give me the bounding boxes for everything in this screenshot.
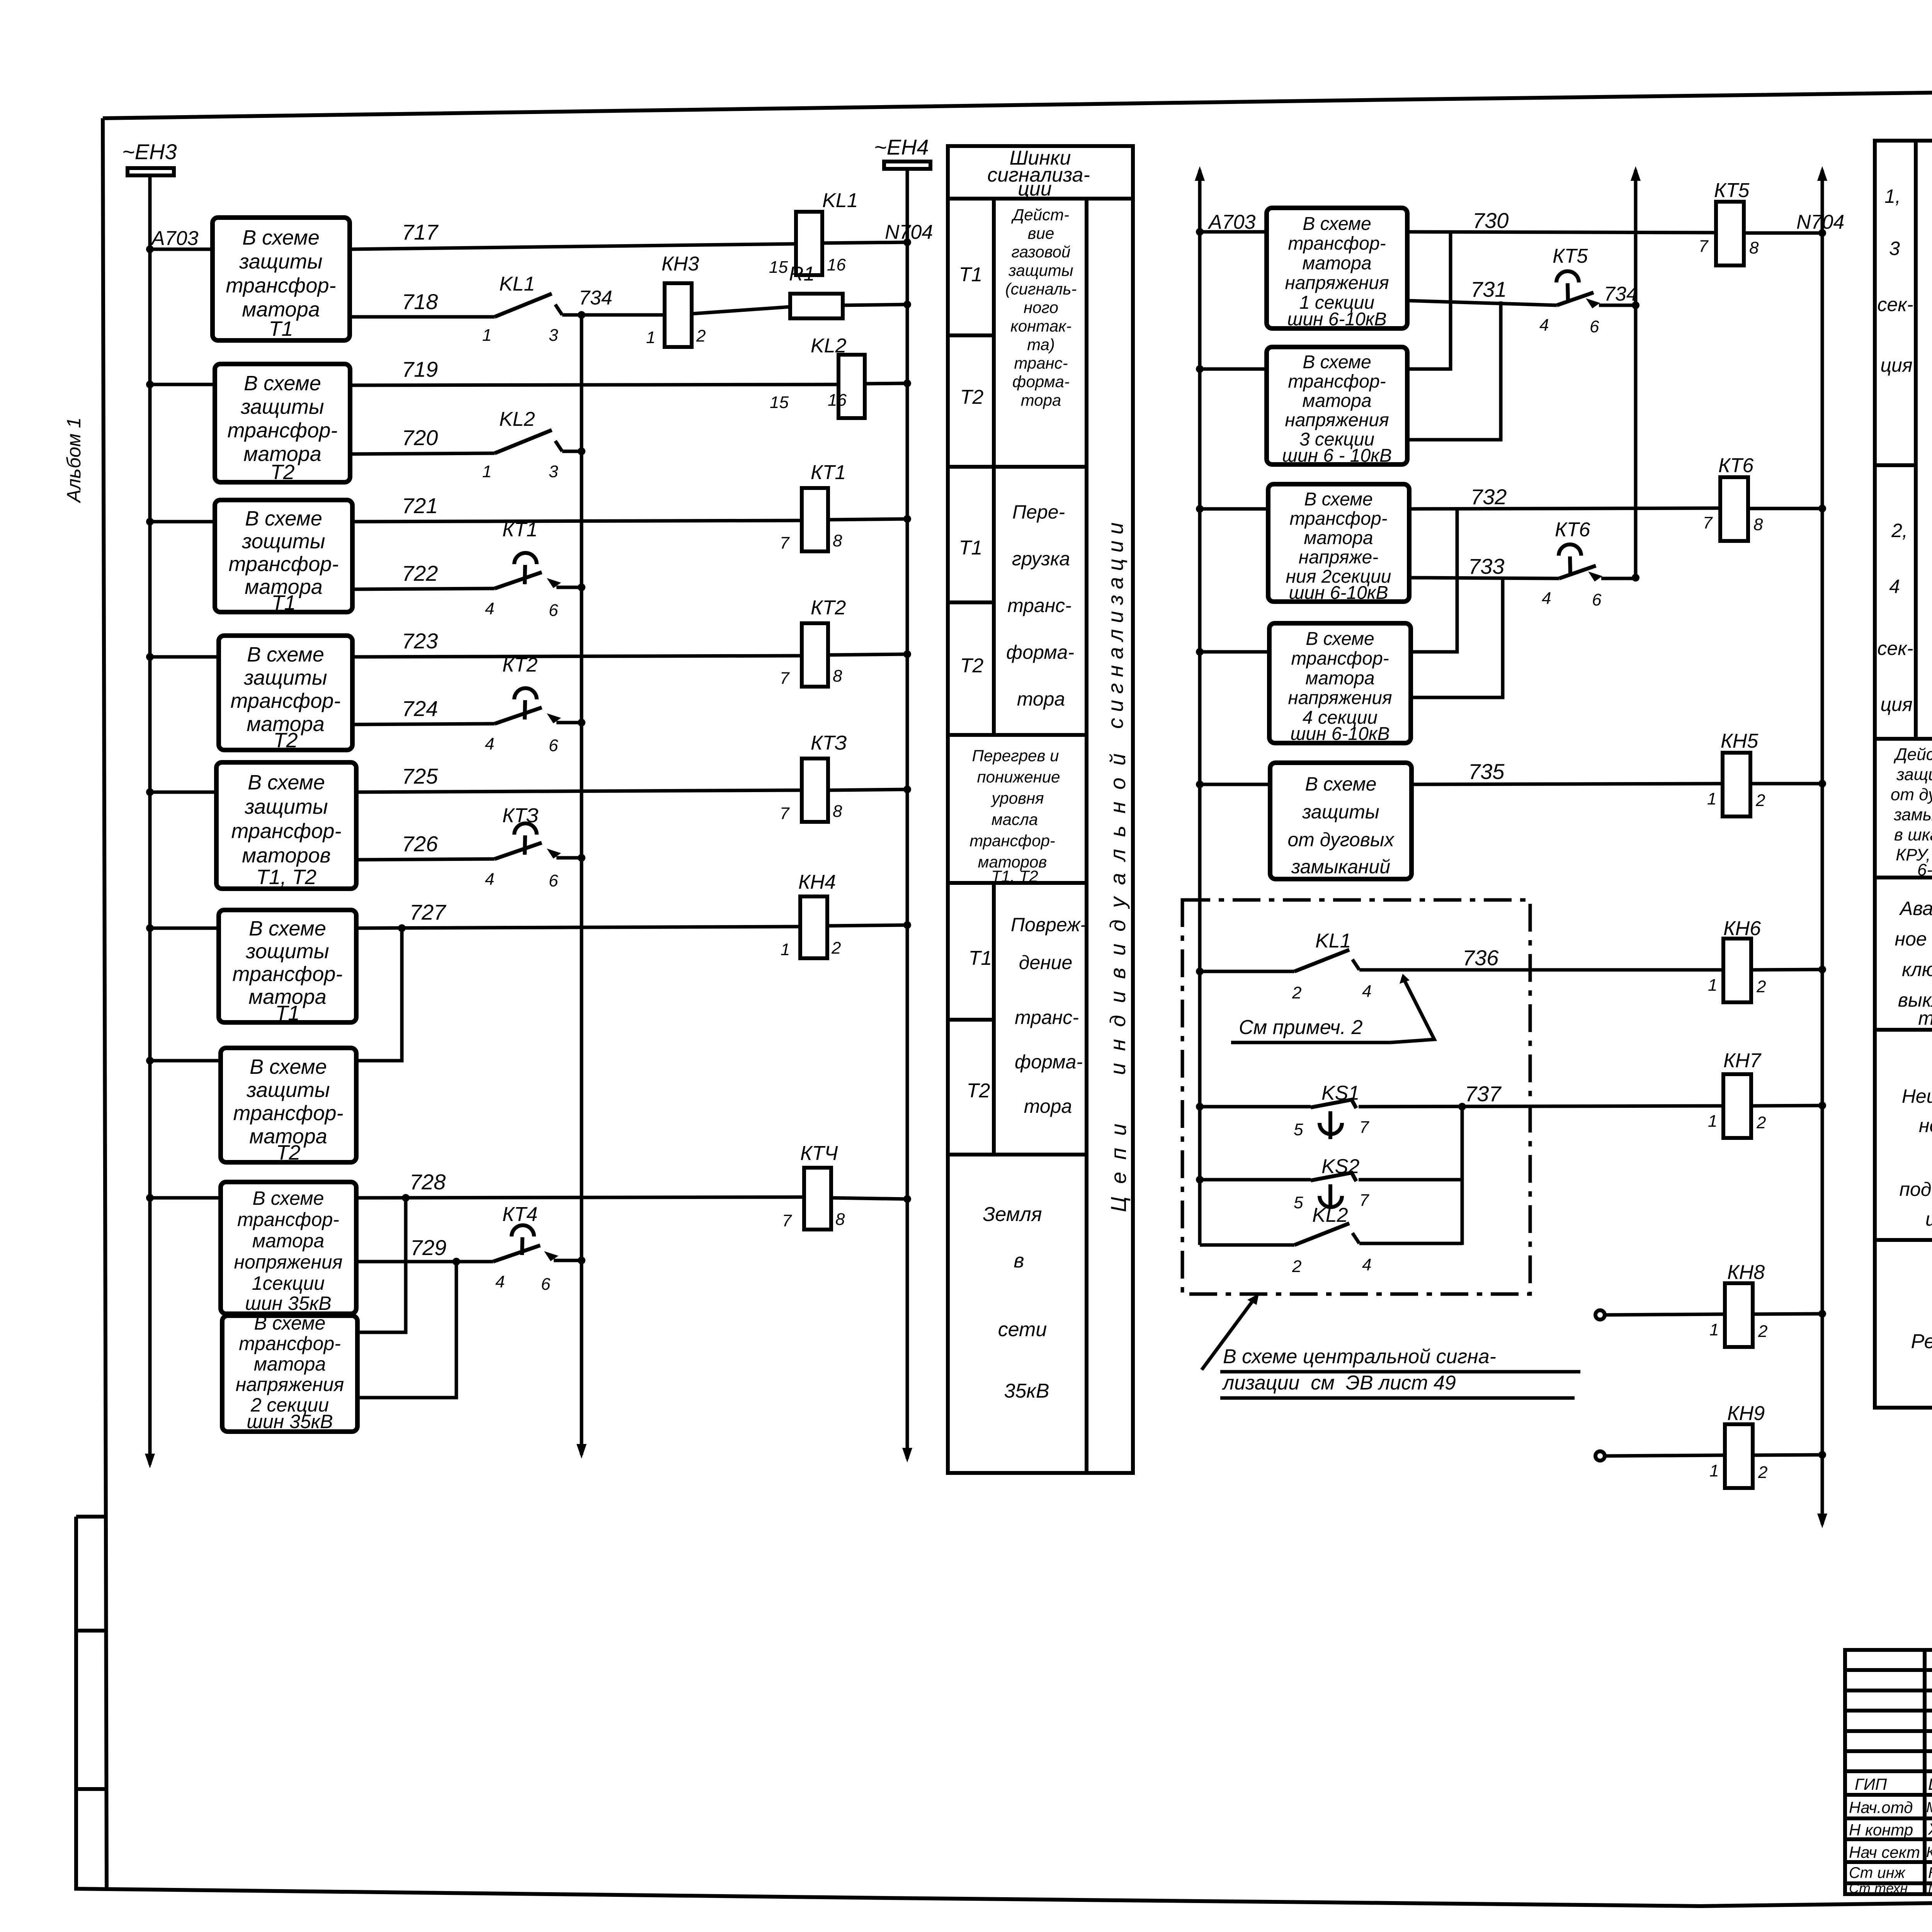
svg-text:шин 35кВ: шин 35кВ [247, 1411, 333, 1432]
svg-text:722: 722 [402, 561, 438, 585]
box m1 В схеме трансформатора напряжения 1 секции шин 6-10кВ [1267, 208, 1407, 328]
svg-text:В схеме: В схеме [1306, 629, 1374, 649]
wire KT5 contact to mid node 734 [1599, 304, 1636, 307]
svg-text:2: 2 [696, 327, 706, 345]
svg-text:понижение: понижение [977, 768, 1060, 786]
junction A703-box8 [146, 1194, 154, 1202]
svg-text:R1: R1 [789, 263, 815, 285]
shinki table row line T1/T2 sec4 [948, 1018, 994, 1022]
left margin stamp boxes [76, 1517, 107, 1889]
svg-text:трансфор-: трансфор- [237, 1209, 339, 1230]
wire 736 left [1200, 970, 1294, 973]
wire KT4 coil to N704 [831, 1198, 907, 1199]
wire A703 to box1 [150, 248, 213, 251]
terminal circle KH8 row [1595, 1310, 1605, 1320]
note leader arrowhead [1400, 974, 1410, 984]
svg-text:1,: 1, [1884, 185, 1901, 207]
contact KT6 blade [1559, 566, 1596, 578]
wire KH7 coil to N704 [1751, 1105, 1822, 1106]
junction midN704-KH8 [1818, 1310, 1826, 1318]
svg-text:Т2: Т2 [967, 1080, 990, 1102]
cell arc protection text [1891, 745, 1932, 879]
junction 729-box9 jog [452, 1258, 460, 1265]
svg-text:KL2: KL2 [1312, 1204, 1348, 1226]
svg-text:Нач сект: Нач сект [1849, 1843, 1920, 1861]
relay coil KH7 [1723, 1074, 1751, 1138]
svg-text:трансфор-: трансфор- [1289, 509, 1387, 529]
svg-text:723: 723 [402, 629, 438, 653]
contact KT3 blade [495, 843, 542, 859]
svg-text:защиты: защиты [1302, 801, 1379, 823]
junction midN704-736 [1818, 966, 1826, 973]
svg-text:1: 1 [1709, 1320, 1719, 1339]
junction mid A703-m2 [1196, 365, 1204, 373]
contact KT3 time-delay symbol [514, 823, 537, 835]
svg-text:уровня: уровня [990, 789, 1044, 807]
svg-text:ция: ция [1880, 694, 1912, 715]
wire 727 [356, 927, 800, 928]
bus ~EH3 bar [128, 168, 174, 175]
contact KS2 cup symbol [1328, 1184, 1332, 1209]
svg-text:сети: сети [998, 1318, 1047, 1341]
svg-text:в: в [1014, 1250, 1024, 1272]
svg-text:трансфор-: трансфор- [228, 419, 338, 442]
svg-text:Действие: Действие [1893, 745, 1932, 764]
svg-text:нопряжения: нопряжения [234, 1251, 342, 1273]
junction 734-720 [578, 447, 585, 455]
wire KH4 coil to N704 [827, 925, 907, 926]
svg-text:КН9: КН9 [1727, 1402, 1765, 1425]
junction mid A703-m1 [1196, 228, 1204, 236]
bus ~EH4 / net N704 vertical wire [906, 167, 909, 1459]
wire A703 to box8 [150, 1196, 221, 1200]
wire KL2 contact to node734 [562, 450, 582, 453]
contact KT4 blade [493, 1245, 540, 1262]
svg-text:КН6: КН6 [1723, 917, 1761, 940]
svg-text:зощиты: зощиты [241, 530, 325, 553]
junction midN704-737 [1818, 1102, 1826, 1109]
svg-text:КТ2: КТ2 [502, 654, 537, 676]
svg-text:маторов: маторов [242, 844, 331, 867]
svg-text:Хмелев: Хмелев [1928, 1820, 1932, 1838]
wire 737 to KH7 [1359, 1106, 1723, 1107]
svg-text:А703: А703 [1207, 211, 1256, 233]
junction A703-box3 [146, 518, 154, 526]
svg-text:транс-: транс- [1015, 1007, 1079, 1028]
middle table row line avar cell bottom [1875, 1028, 1932, 1032]
wire KL1 coil to N704 [822, 242, 907, 243]
box2 В схеме защиты трансформатора Т2 [215, 364, 350, 482]
junction midN704-735 [1818, 780, 1826, 787]
svg-text:35кВ: 35кВ [1004, 1380, 1049, 1402]
svg-text:напряжения: напряжения [1285, 410, 1389, 430]
svg-text:тора: тора [1021, 391, 1061, 409]
wire 724 [352, 724, 495, 724]
box7 В схеме защиты трансформатора Т2 [221, 1048, 356, 1162]
svg-text:7: 7 [780, 534, 790, 553]
svg-text:2: 2 [1756, 1113, 1766, 1132]
svg-text:1: 1 [1707, 789, 1716, 808]
contact KT1 blade [495, 572, 542, 588]
contact KT5 fixed arrow [1586, 298, 1600, 308]
shinki table outer border [948, 146, 1133, 1473]
svg-text:В схеме: В схеме [1305, 773, 1377, 795]
svg-text:В схеме: В схеме [247, 643, 324, 666]
svg-text:шин 6-10кВ: шин 6-10кВ [1290, 724, 1389, 744]
junction A703-box2 [146, 381, 154, 388]
svg-text:732: 732 [1471, 485, 1507, 509]
svg-text:736: 736 [1463, 946, 1499, 970]
svg-text:ГИП: ГИП [1855, 1775, 1887, 1793]
junction N704-723 [903, 650, 911, 658]
svg-text:719: 719 [402, 357, 438, 381]
svg-text:Колесникова: Колесникова [1926, 1844, 1932, 1861]
box6 В схеме зощиты трансформатора Т1 [219, 910, 356, 1022]
svg-text:ции: ции [1925, 1208, 1932, 1230]
junction N704-728 [903, 1195, 911, 1203]
wire box7 jog to 727 [356, 928, 402, 1061]
svg-text:матора: матора [1305, 668, 1374, 689]
contact KT6 fixed arrow [1588, 571, 1602, 582]
title block outer border [1845, 1650, 1932, 1894]
svg-text:6: 6 [549, 736, 558, 755]
relay coil KT2 [802, 623, 828, 687]
junction midA703-737 [1196, 1103, 1204, 1111]
svg-text:В схеме центральной сигна-: В схеме центральной сигна- [1223, 1345, 1496, 1368]
svg-text:Перегрев и: Перегрев и [972, 747, 1059, 765]
wire KS2 row left [1200, 1178, 1311, 1182]
svg-text:4: 4 [1362, 982, 1371, 1001]
svg-text:от дуговых: от дуговых [1891, 785, 1932, 804]
svg-text:15: 15 [770, 393, 789, 412]
bus A703 bottom arrow [145, 1454, 155, 1468]
svg-text:форма-: форма- [1012, 372, 1070, 391]
contact KT5 time-delay symbol [1556, 271, 1579, 282]
contact KL1 (dashed box) fixed tick [1352, 959, 1359, 970]
junction mid A703-m4 [1196, 648, 1204, 656]
wire KH9 coil to N704 [1753, 1455, 1822, 1455]
svg-text:КН3: КН3 [662, 253, 699, 275]
svg-text:тора: тора [1017, 688, 1065, 710]
svg-text:телей: телей [1918, 1007, 1932, 1029]
svg-text:КТ6: КТ6 [1555, 519, 1590, 541]
wire KT5 coil to N704 [1744, 231, 1822, 235]
svg-text:вие: вие [1028, 224, 1054, 242]
contact KS1 blade [1311, 1100, 1356, 1108]
wire KH3 coil to R1 [692, 307, 790, 314]
wire KL2 row left [1200, 1243, 1294, 1247]
svg-text:В схеме: В схеме [250, 1055, 327, 1078]
svg-text:Альбом 1: Альбом 1 [63, 417, 85, 503]
svg-text:734: 734 [579, 287, 612, 309]
relay coil KT1 [802, 488, 828, 551]
svg-text:В схеме: В схеме [1303, 352, 1371, 372]
wire m2 jog to 730 [1407, 232, 1451, 369]
note line2 underline [1220, 1396, 1575, 1400]
svg-text:7: 7 [780, 669, 790, 688]
relay coil KH3 [665, 283, 692, 347]
frame top border [103, 83, 1932, 118]
contact KL2 fixed tick [555, 441, 562, 451]
relay coil KH6 [1723, 939, 1751, 1002]
svg-text:защиты: защиты [1896, 765, 1932, 784]
wire mid A703 to m5 [1200, 783, 1270, 786]
wire 729 [356, 1260, 493, 1264]
wire 725 [356, 790, 802, 792]
svg-text:4: 4 [495, 1272, 505, 1291]
contact KT2 fixed arrow [547, 713, 561, 723]
wire KL2 coil to N704 [865, 383, 907, 384]
svg-text:матора: матора [1302, 253, 1371, 274]
svg-text:2: 2 [1758, 1322, 1767, 1341]
svg-text:масла: масла [992, 810, 1038, 828]
svg-text:В схеме: В схеме [244, 372, 321, 395]
svg-text:16: 16 [828, 391, 847, 410]
svg-text:тора: тора [1024, 1095, 1072, 1117]
svg-text:шин 35кВ: шин 35кВ [245, 1293, 331, 1314]
svg-text:В схеме: В схеме [248, 771, 325, 794]
mid N704 right vertical wire [1821, 170, 1824, 1524]
junction mid A703-m5 [1196, 781, 1204, 788]
box m3 В схеме трансформатора напряжения 2 секции шин 6-10кВ [1268, 484, 1409, 602]
wire KL1 contact to node 734 [562, 313, 582, 317]
svg-text:КТ5: КТ5 [1553, 245, 1588, 267]
box m4 В схеме трансформатора напряжения 4 секции шин 6-10кВ [1269, 623, 1411, 743]
svg-text:ции: ции [1018, 178, 1052, 200]
svg-text:КН8: КН8 [1727, 1261, 1765, 1284]
svg-text:6: 6 [549, 601, 558, 620]
wire A703 to box6 [150, 927, 219, 930]
svg-text:матора: матора [254, 1353, 326, 1375]
svg-text:ное от -: ное от - [1895, 928, 1932, 950]
note leader to dashed box [1202, 1295, 1257, 1370]
svg-text:Ст инж: Ст инж [1849, 1864, 1906, 1881]
junction midN704-730 [1818, 229, 1826, 237]
frame left border [103, 118, 107, 1889]
svg-text:2: 2 [1758, 1463, 1767, 1482]
svg-text:Т1: Т1 [969, 947, 992, 969]
wire box9 top jog to 728 [357, 1198, 406, 1332]
svg-text:6: 6 [541, 1275, 551, 1294]
junction A703-box6 [146, 924, 154, 932]
wire KH8 row [1605, 1314, 1725, 1315]
svg-text:лизации см ЭВ лист 49: лизации см ЭВ лист 49 [1222, 1372, 1456, 1394]
shinki table header text [987, 147, 1090, 200]
svg-text:Касаткина: Касаткина [1928, 1864, 1932, 1881]
svg-text:5: 5 [1294, 1120, 1303, 1139]
svg-text:защиты: защиты [239, 250, 322, 273]
svg-text:4: 4 [1889, 576, 1900, 597]
contact KT2 blade [495, 707, 542, 724]
contact KT2 time-delay symbol [514, 688, 537, 699]
svg-text:3: 3 [1889, 238, 1900, 259]
wire mid A703 to m4 [1200, 650, 1269, 654]
contact KT4 time-delay symbol [512, 1225, 534, 1236]
svg-text:В схеме: В схеме [1304, 489, 1373, 510]
svg-text:735: 735 [1468, 759, 1505, 784]
svg-text:7: 7 [1359, 1191, 1369, 1210]
svg-text:В схеме: В схеме [254, 1312, 326, 1334]
middle table row line sections bottom [1875, 737, 1932, 741]
svg-text:4: 4 [485, 735, 494, 753]
contact KL2 blade [495, 430, 552, 453]
svg-text:7: 7 [1699, 237, 1709, 256]
wire KT4 contact to node734 [554, 1259, 582, 1262]
wire KT1 coil to N704 [828, 519, 907, 520]
svg-text:4: 4 [485, 599, 494, 618]
svg-text:защиты: защиты [246, 1078, 330, 1102]
wire 733 [1409, 578, 1559, 578]
svg-text:KL1: KL1 [499, 273, 535, 295]
svg-text:контак-: контак- [1010, 317, 1071, 335]
junction N704-727 [903, 921, 911, 929]
wire 720 [350, 453, 495, 454]
svg-text:718: 718 [402, 289, 438, 314]
svg-text:Т2: Т2 [273, 729, 298, 752]
middle table row line neispr cell bottom [1875, 1238, 1932, 1242]
wire 723 [352, 656, 802, 657]
svg-text:Т1, Т2: Т1, Т2 [256, 866, 316, 889]
title block row lines left part [1845, 1670, 1932, 1883]
cell earth 35kV text [983, 1203, 1049, 1402]
svg-text:7: 7 [1703, 514, 1713, 532]
svg-text:1секции: 1секции [252, 1272, 325, 1294]
shinki table row line T1/T2 sec2 [948, 600, 994, 604]
bus N704 bottom arrow [902, 1448, 912, 1463]
junction midN704-KH9 [1818, 1451, 1826, 1459]
junction mid A703-m3 [1196, 505, 1204, 513]
relay coil KT6 [1720, 477, 1748, 541]
svg-text:Пере-: Пере- [1012, 501, 1065, 523]
svg-text:Т1: Т1 [269, 317, 293, 340]
wire KH5 coil to N704 [1750, 782, 1822, 786]
svg-text:А703: А703 [150, 227, 199, 250]
cell overheat text [969, 747, 1060, 885]
box1 В схеме защиты трансформатора Т1 [213, 218, 350, 340]
svg-text:ность: ность [1919, 1115, 1932, 1136]
svg-text:725: 725 [402, 764, 438, 788]
relay coil KT3 [802, 759, 828, 822]
svg-text:шин 6-10кВ: шин 6-10кВ [1287, 309, 1386, 330]
wire KT6 coil to N704 [1748, 507, 1822, 510]
junction 734-724 [578, 719, 585, 726]
contact KT6 time-delay symbol [1559, 544, 1581, 556]
svg-text:защиты: защиты [240, 395, 324, 418]
mid N704 top arrow [1817, 166, 1827, 181]
svg-text:ного: ного [1024, 298, 1058, 316]
contact KT3 fixed arrow [547, 849, 561, 859]
relay coil KT4 [804, 1168, 831, 1230]
frame bottom border [74, 1889, 1932, 1906]
svg-text:KL1: KL1 [1315, 930, 1351, 952]
jog vertical KS2/KL2 to 737 [1461, 1107, 1464, 1245]
svg-text:6: 6 [1590, 317, 1599, 336]
svg-text:6: 6 [549, 871, 558, 890]
svg-text:грузка: грузка [1012, 548, 1070, 570]
wire KT3 contact to node734 [556, 856, 582, 860]
svg-text:трансфор-: трансфор- [239, 1333, 341, 1354]
shinki table header bottom line [948, 197, 1133, 201]
svg-text:Аварий -: Аварий - [1899, 898, 1932, 919]
wire 736 to KH6 [1359, 968, 1723, 972]
svg-text:Земля: Земля [983, 1203, 1042, 1226]
svg-text:форма-: форма- [1006, 641, 1074, 663]
junction A703-box5 [146, 788, 154, 796]
relay coil KH4 [800, 896, 827, 958]
wire KH8 coil to N704 [1753, 1314, 1822, 1314]
title block vertical divider col1 [1923, 1650, 1927, 1894]
svg-text:1: 1 [1708, 1112, 1717, 1131]
junction N704-719 [903, 379, 911, 387]
wire 732 [1409, 508, 1720, 509]
svg-text:Т1: Т1 [275, 1002, 299, 1025]
svg-text:матора: матора [1302, 391, 1371, 411]
svg-text:КТ6: КТ6 [1718, 454, 1753, 477]
box m5 В схеме защиты от дуговых замыканий [1270, 763, 1412, 879]
svg-text:защиты: защиты [244, 795, 328, 818]
junction midA703-KS2 [1196, 1176, 1204, 1184]
wire 722 [352, 588, 495, 589]
svg-text:1: 1 [1708, 976, 1717, 995]
svg-text:та): та) [1027, 335, 1055, 354]
svg-text:Т2: Т2 [270, 461, 294, 484]
svg-text:Нач.отд: Нач.отд [1849, 1798, 1913, 1816]
svg-text:матора: матора [1304, 528, 1373, 548]
box8 В схеме трансформатора нопряжения 1секции шин 35кВ [221, 1182, 356, 1314]
wire A703 to box4 [150, 655, 219, 659]
svg-text:4: 4 [1362, 1255, 1371, 1274]
middle table left col divider [1914, 141, 1918, 739]
svg-text:734: 734 [1604, 283, 1638, 305]
wire KT2 contact to node734 [556, 721, 582, 724]
svg-text:717: 717 [402, 220, 439, 244]
svg-text:Т2: Т2 [276, 1141, 300, 1164]
svg-text:724: 724 [402, 696, 438, 721]
shinki table left column divider [992, 199, 996, 735]
relay coil KH5 [1723, 753, 1750, 816]
svg-text:Неисправ-: Неисправ- [1902, 1085, 1932, 1107]
svg-text:5: 5 [1294, 1193, 1303, 1212]
svg-text:ключение: ключение [1902, 959, 1932, 980]
svg-text:защиты: защиты [243, 666, 327, 689]
junction A703-box1 [146, 245, 154, 253]
relay coil KT5 [1716, 202, 1744, 265]
node 734 vertical wire [580, 315, 583, 1455]
svg-text:В схеме: В схеме [1303, 214, 1371, 234]
box3 В схеме зощиты трансформатора Т1 [215, 500, 352, 612]
wire box9 bottom jog to 729 [357, 1262, 456, 1398]
contact KL2 (dashed box) fixed tick [1352, 1233, 1359, 1243]
svg-text:газовой: газовой [1012, 243, 1071, 261]
wire 730 [1407, 232, 1716, 233]
junction A703-box4 [146, 653, 154, 661]
junction A703-box7 [146, 1057, 154, 1065]
svg-text:2: 2 [1292, 983, 1301, 1002]
svg-text:от дуговых: от дуговых [1287, 829, 1395, 850]
junction mid734-731 [1632, 301, 1639, 309]
svg-text:8: 8 [833, 531, 842, 550]
wire m4 jog to 733 [1411, 578, 1503, 697]
wire 731 [1407, 301, 1557, 305]
junction midA703-736 [1196, 968, 1204, 975]
junction N704-717 [903, 238, 911, 246]
contact KT1 time-delay symbol [514, 553, 537, 564]
junction 734-718 [578, 311, 585, 319]
shinki table row line sec1 bottom [948, 465, 1087, 469]
svg-text:дение: дение [1019, 952, 1073, 973]
contact KT1 fixed arrow [547, 578, 561, 588]
svg-text:727: 727 [410, 900, 446, 924]
